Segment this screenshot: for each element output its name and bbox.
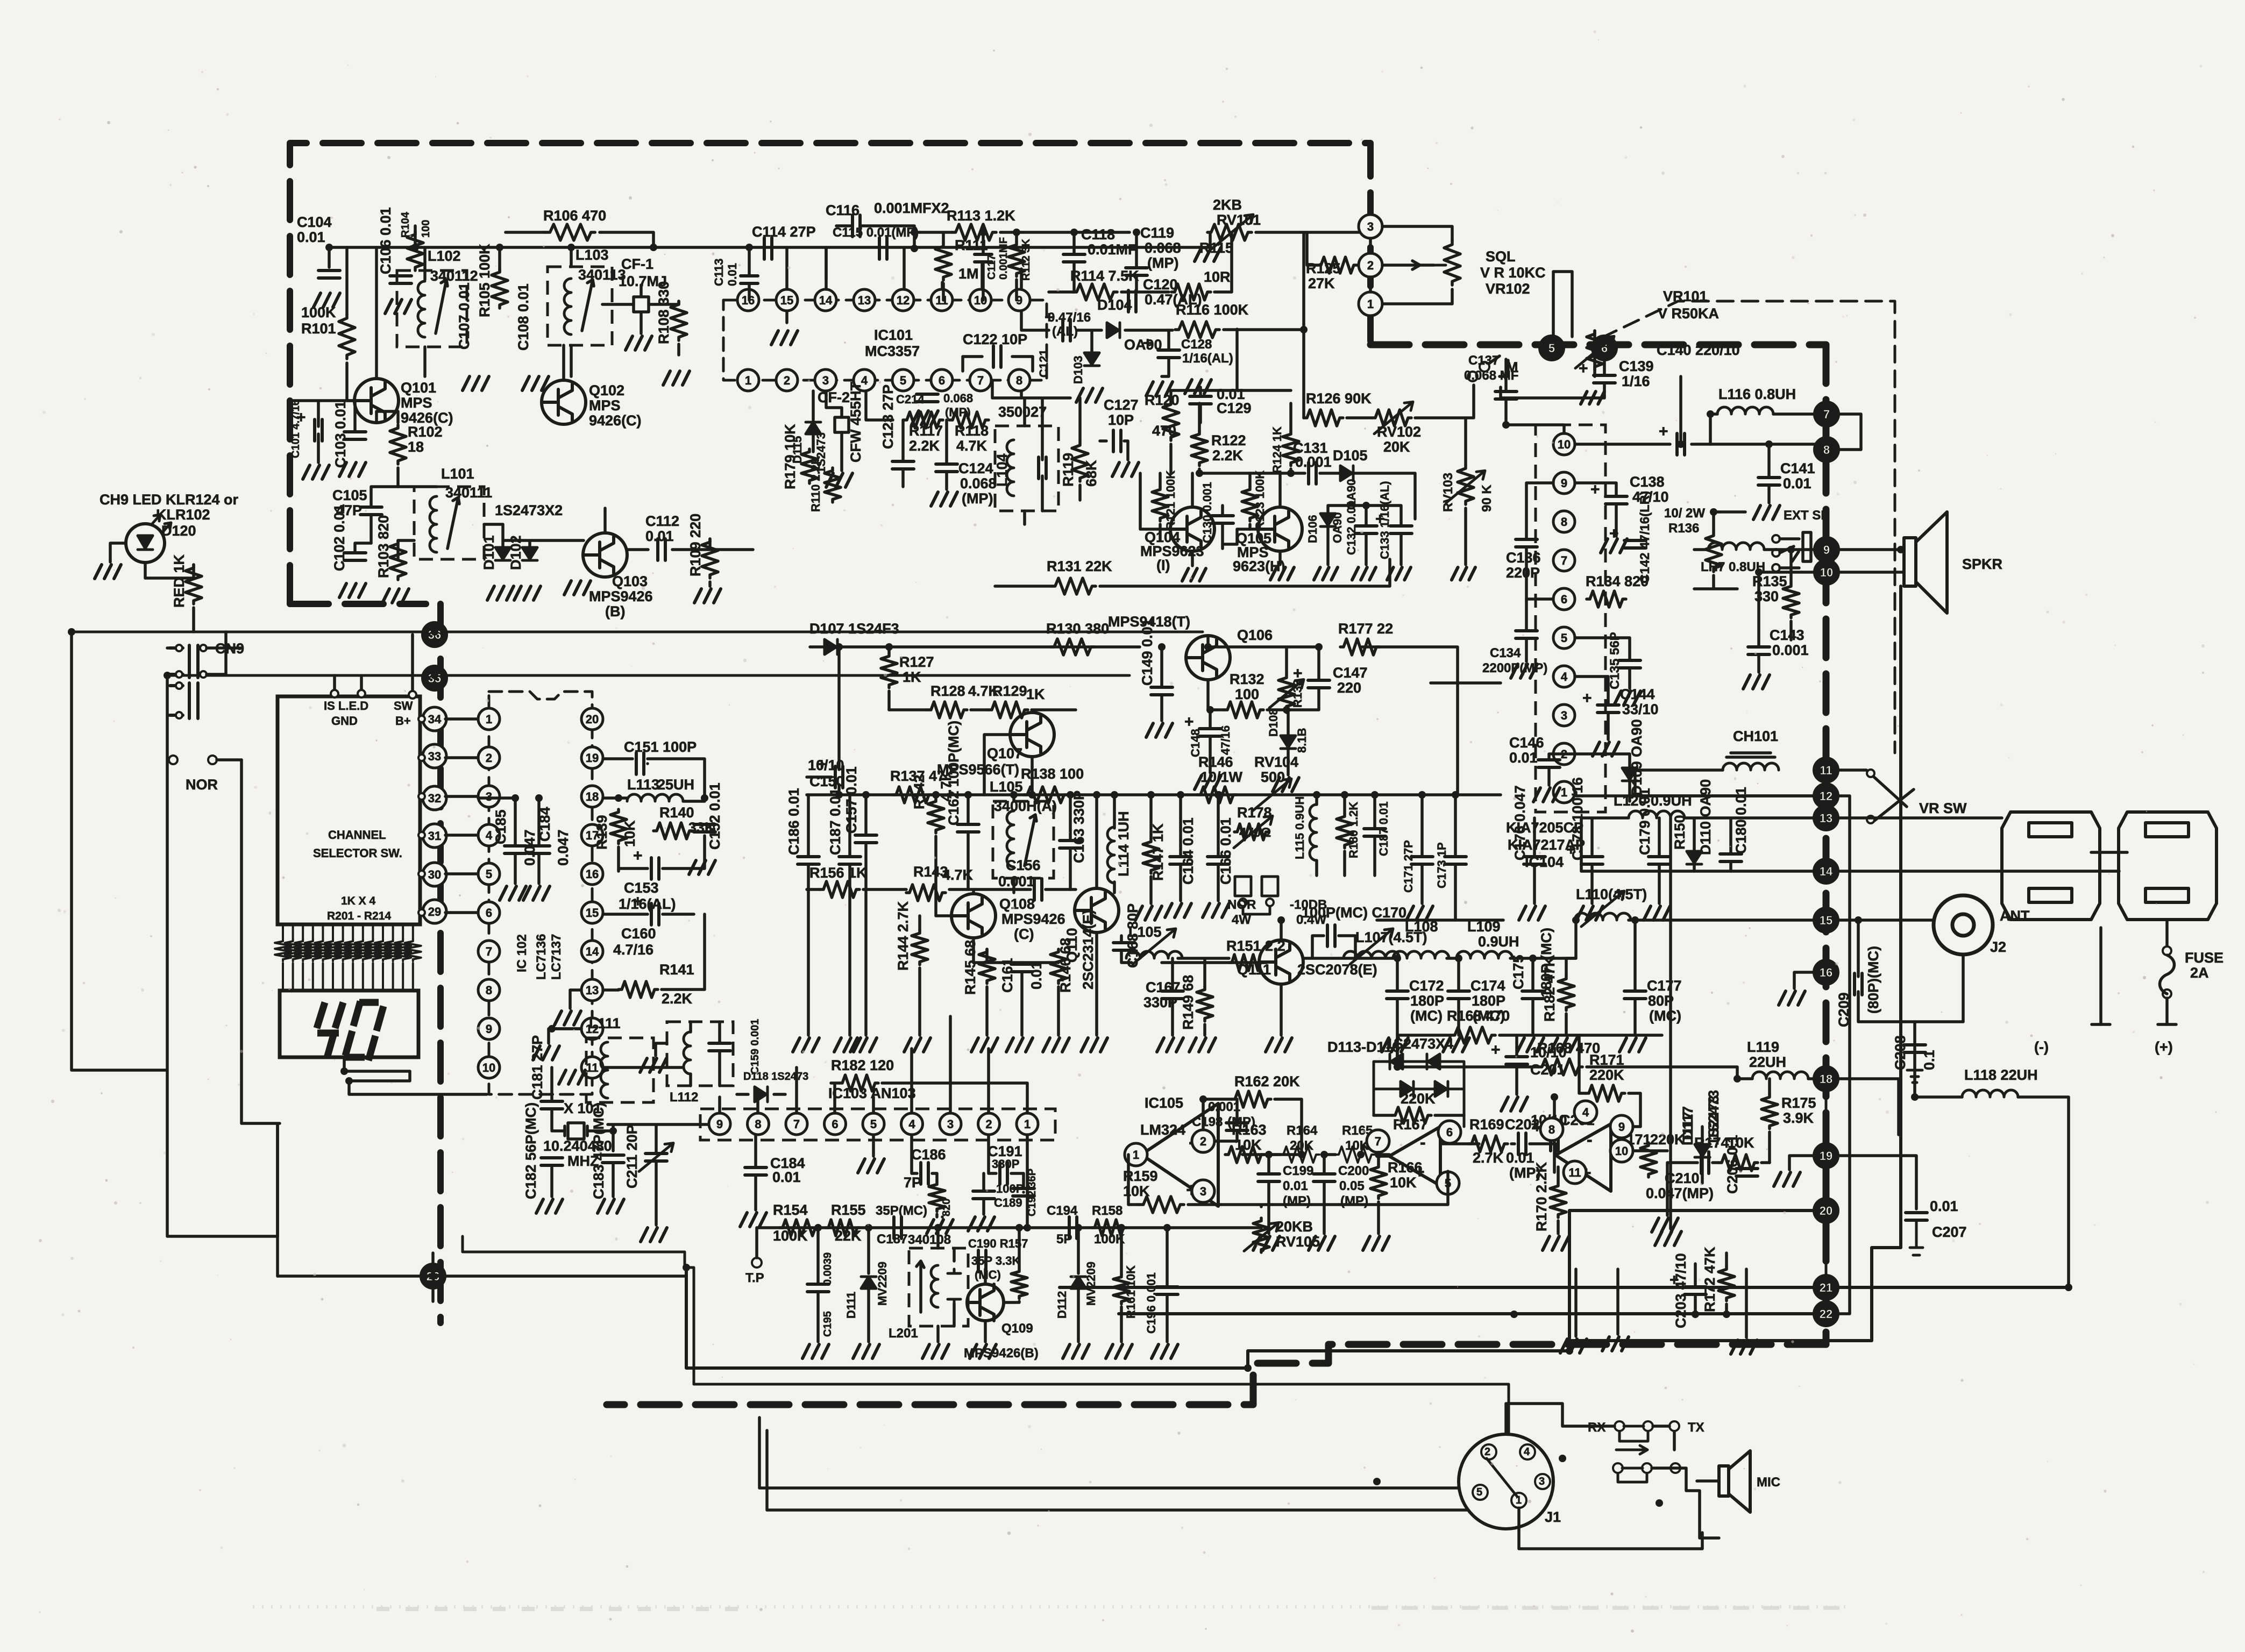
capacitor C176 (1524, 857, 1545, 864)
svg-text:C133 1/16(AL): C133 1/16(AL) (1378, 481, 1391, 559)
svg-text:R114 7.5K: R114 7.5K (1070, 268, 1139, 284)
node 19 (1814, 1144, 1838, 1167)
resistor R135 (1783, 583, 1799, 618)
wire c179 (1658, 818, 1661, 903)
wire r166 (1377, 1155, 1380, 1234)
svg-text:C211 20P: C211 20P (624, 1124, 640, 1188)
svg-text:11: 11 (586, 1061, 598, 1074)
svg-text:0.047(MP): 0.047(MP) (1646, 1185, 1714, 1201)
capacitor C198 (1226, 1123, 1248, 1130)
svg-text:10/10: 10/10 (1530, 1044, 1567, 1060)
svg-text:R178: R178 (1237, 804, 1272, 821)
wire r131 (995, 559, 1390, 586)
svg-text:(C): (C) (1014, 926, 1034, 942)
svg-text:8: 8 (1561, 515, 1567, 529)
capacitor C184 (745, 1167, 766, 1175)
svg-text:R140: R140 (659, 804, 694, 821)
wire c209 (1858, 955, 1963, 1022)
wire node20 staircase (686, 1210, 1814, 1368)
svg-text:2.2K: 2.2K (1212, 447, 1244, 464)
wire spkr right drop (1571, 586, 1901, 1341)
wire r182 (1565, 958, 1568, 1035)
wire c182 (550, 1165, 553, 1197)
svg-text:R122: R122 (1211, 432, 1246, 448)
svg-text:R150: R150 (1672, 815, 1688, 850)
svg-text:10K: 10K (1235, 1137, 1262, 1153)
svg-text:0.01: 0.01 (645, 528, 674, 544)
svg-text:R129: R129 (992, 683, 1027, 699)
capacitor C124 (936, 464, 957, 472)
inductor L120 (1629, 811, 1685, 818)
svg-text:SPKR: SPKR (1962, 556, 2002, 572)
svg-text:RV103: RV103 (1441, 473, 1455, 512)
wire ic102 left ties (445, 719, 478, 913)
capacitor C144 (1597, 705, 1619, 713)
wire r116 (1224, 232, 1304, 418)
svg-text:R171: R171 (1589, 1052, 1624, 1068)
wire Q103 (583, 508, 648, 555)
wire r157 (985, 1228, 1019, 1342)
capacitor C196 (1156, 1287, 1178, 1294)
IC102 pin 8 (478, 979, 500, 1001)
svg-text:4.7K: 4.7K (942, 867, 974, 883)
capacitor C148 (1199, 729, 1221, 736)
wire c151 (603, 759, 705, 798)
svg-text:7: 7 (486, 945, 492, 958)
inductor L101 (340111) (414, 487, 484, 559)
svg-text:C132 0.01: C132 0.01 (1345, 500, 1358, 555)
svg-text:100K: 100K (773, 1228, 808, 1244)
svg-text:20: 20 (586, 713, 599, 726)
capacitor C184 (528, 846, 550, 853)
svg-text:0.001: 0.001 (1772, 642, 1809, 658)
wire pin11 right (603, 1066, 683, 1069)
switch NOR (169, 756, 177, 764)
node 21 (1814, 1276, 1838, 1299)
svg-text:+: + (1579, 360, 1588, 378)
wire c196b (1166, 1228, 1169, 1342)
resistor R132 (1224, 702, 1263, 718)
svg-text:C142 47/16(LR): C142 47/16(LR) (1638, 491, 1652, 583)
capacitor C150 (835, 766, 843, 788)
svg-text:C163 330P: C163 330P (1071, 791, 1087, 863)
svg-text:RV104: RV104 (1254, 754, 1298, 770)
svg-text:29: 29 (428, 905, 441, 918)
node 15 (1814, 908, 1838, 932)
svg-text:0.01: 0.01 (1283, 1179, 1308, 1193)
capacitor C187b (839, 857, 861, 864)
capacitor C151 (636, 753, 644, 774)
svg-text:R139: R139 (594, 815, 610, 850)
svg-text:8: 8 (1823, 443, 1830, 457)
capacitor C177 (1624, 991, 1646, 999)
svg-text:8: 8 (1016, 374, 1022, 387)
svg-text:C128: C128 (1181, 337, 1212, 352)
svg-text:4: 4 (908, 1117, 915, 1131)
resistor R114 (1073, 284, 1117, 300)
svg-text:IC101: IC101 (874, 327, 913, 343)
svg-text:EXT SP: EXT SP (1784, 508, 1829, 523)
wire spkr (1838, 550, 1904, 572)
resistor R153 (929, 1182, 945, 1212)
resistor R116 (1175, 322, 1219, 338)
svg-text:R142: R142 (911, 774, 927, 809)
svg-text:-: - (1420, 1133, 1426, 1152)
capacitor C115 (879, 238, 887, 259)
capacitor C142 (1624, 540, 1646, 548)
op-amp A pins (1125, 1143, 1147, 1166)
wire long bus A (72, 631, 1203, 633)
svg-text:6: 6 (1561, 593, 1567, 606)
wire x3106 (1669, 818, 1672, 1229)
resistor R157 (1011, 1269, 1027, 1299)
wire long bus B (167, 674, 1129, 677)
IC103 pins (709, 1113, 730, 1135)
svg-text:SQL: SQL (1486, 248, 1516, 265)
svg-text:3: 3 (1200, 1185, 1206, 1198)
wire L116 (1710, 414, 1815, 444)
svg-text:13: 13 (1820, 811, 1832, 825)
svg-text:18: 18 (586, 790, 599, 803)
wire pin9 drop (1021, 311, 1049, 330)
svg-text:IS L.E.D: IS L.E.D (324, 699, 368, 713)
IC102 pin 19 (581, 747, 603, 768)
wire d112 (1077, 1228, 1080, 1342)
svg-text:8.1B: 8.1B (1295, 728, 1309, 753)
IC102 pin 1 (478, 708, 500, 730)
svg-text:VR102: VR102 (1486, 281, 1530, 297)
svg-text:5: 5 (1548, 341, 1555, 355)
capacitor C156 (1034, 879, 1042, 900)
svg-text:C139: C139 (1619, 358, 1654, 374)
node 7 (1815, 402, 1838, 426)
inductor L102 (340112) (397, 270, 467, 347)
svg-text:+: + (1293, 665, 1303, 682)
wire q108 em (920, 916, 1058, 1035)
capacitor C180 (1720, 854, 1742, 861)
svg-text:C127: C127 (1104, 397, 1139, 413)
node 35 (423, 666, 446, 690)
svg-text:2.2K: 2.2K (662, 991, 693, 1007)
capacitor C112 (658, 539, 665, 560)
svg-text:C187 0.01: C187 0.01 (827, 788, 843, 855)
wire c211 (608, 1124, 708, 1225)
svg-text:33/10: 33/10 (1622, 701, 1659, 717)
svg-text:C149 0.01: C149 0.01 (1139, 618, 1155, 686)
wire cn9 (167, 632, 241, 715)
diode D105 (1340, 466, 1353, 481)
svg-text:C176 0.047: C176 0.047 (1512, 785, 1528, 860)
svg-text:L102: L102 (428, 248, 461, 264)
IC102 pin 13 (581, 979, 603, 1001)
svg-text:10: 10 (974, 294, 987, 307)
svg-text:C112: C112 (645, 513, 679, 529)
svg-text:16: 16 (1820, 966, 1832, 979)
svg-text:0.068: 0.068 (943, 391, 973, 405)
connector plug B (2119, 812, 2216, 920)
svg-text:7: 7 (1561, 554, 1567, 567)
inductor L118 (1962, 1090, 2018, 1097)
svg-text:C166 0.01: C166 0.01 (1218, 817, 1234, 885)
transistor Q109 (967, 1284, 1004, 1321)
svg-text:MPS9623: MPS9623 (1140, 543, 1204, 559)
svg-text:3: 3 (947, 1117, 954, 1131)
wire plugs (2091, 852, 2167, 1024)
capacitor C113 (741, 276, 758, 283)
wire l110 (1566, 920, 1814, 958)
resistor bank R201-R214 (275, 939, 291, 961)
svg-text:+: + (1143, 334, 1153, 352)
svg-text:C181 27P: C181 27P (529, 1035, 545, 1100)
diode D115 (806, 422, 821, 434)
wire disp (344, 1057, 410, 1081)
capacitor C197 (1364, 829, 1386, 836)
node 18 (1814, 1067, 1838, 1091)
wire l113 (603, 798, 705, 801)
capacitor C210 (1701, 1152, 1709, 1173)
svg-text:R146: R146 (1198, 754, 1233, 770)
svg-text:C179 0.01: C179 0.01 (1637, 788, 1653, 855)
resistor RED 1K (186, 565, 202, 604)
svg-text:C135 56P: C135 56P (1608, 632, 1622, 689)
diode D112 (1071, 1277, 1086, 1288)
svg-text:R145 68: R145 68 (962, 940, 978, 995)
svg-text:220K: 220K (1589, 1067, 1624, 1083)
wire c207 (1910, 1220, 1923, 1255)
wire r127 (887, 647, 891, 710)
svg-text:47/16: 47/16 (1219, 725, 1232, 755)
capacitor C186 (921, 1163, 928, 1184)
svg-text:C167: C167 (1146, 979, 1181, 995)
svg-text:13: 13 (586, 984, 599, 997)
svg-text:R163: R163 (1232, 1122, 1267, 1138)
node 31 (423, 824, 446, 848)
wire c176 (1533, 818, 1536, 903)
resistor R146b (1050, 949, 1067, 984)
svg-text:2: 2 (985, 1117, 992, 1131)
svg-text:1K: 1K (1026, 686, 1045, 702)
wire c141 (1767, 444, 1771, 503)
op-amp C pins (1540, 1118, 1563, 1141)
svg-text:C202: C202 (1505, 1116, 1540, 1133)
svg-text:C159 0.001: C159 0.001 (749, 1019, 761, 1074)
resistor R123 (1242, 487, 1258, 521)
svg-text:V R 10KC: V R 10KC (1480, 265, 1546, 281)
svg-text:(AL): (AL) (1052, 324, 1078, 339)
svg-text:5: 5 (486, 867, 492, 881)
svg-text:14: 14 (586, 945, 599, 958)
svg-text:R164: R164 (1287, 1123, 1318, 1138)
svg-text:0.01: 0.01 (772, 1169, 801, 1185)
wire l201 (938, 1228, 954, 1342)
resistor R155 (826, 1220, 860, 1236)
svg-text:0.001: 0.001 (998, 873, 1035, 889)
capacitor C190 (978, 1250, 986, 1272)
wire q104 base (1140, 473, 1258, 544)
svg-text:2SC2078(E): 2SC2078(E) (1297, 962, 1377, 978)
svg-text:4.7/16: 4.7/16 (613, 942, 653, 958)
wire c195 (816, 1228, 820, 1342)
svg-text:4.7K: 4.7K (956, 438, 987, 454)
svg-text:Q108: Q108 (999, 896, 1035, 912)
svg-text:D105: D105 (1333, 447, 1368, 464)
svg-text:8: 8 (486, 984, 492, 997)
pot RV105 (1253, 1218, 1269, 1252)
wire bus1711 (1377, 918, 1503, 922)
svg-text:5P: 5P (1056, 1232, 1072, 1247)
node 34 (423, 707, 446, 731)
svg-text:C157 0.01: C157 0.01 (843, 766, 859, 834)
channel selector box (278, 696, 420, 924)
svg-text:Q106: Q106 (1237, 627, 1273, 643)
svg-text:C195: C195 (822, 1311, 834, 1337)
svg-text:0.001: 0.001 (1295, 454, 1332, 470)
svg-text:LC7137: LC7137 (549, 934, 564, 980)
capacitor C179 (1649, 857, 1670, 864)
IC104 dashed outline (1536, 425, 1605, 812)
svg-text:330P: 330P (992, 1157, 1019, 1171)
resistor R127 (881, 653, 897, 688)
trim coil L107 (1344, 951, 1399, 958)
svg-text:(MC): (MC) (975, 1268, 1001, 1281)
capacitor C181 (541, 1101, 563, 1109)
svg-text:Q109: Q109 (1001, 1321, 1033, 1336)
svg-text:+: + (1659, 423, 1668, 440)
wire modbus (757, 1226, 1261, 1229)
resistor R134 (1587, 591, 1626, 607)
svg-text:9426(C): 9426(C) (589, 412, 642, 429)
svg-text:7: 7 (1823, 408, 1830, 421)
svg-text:TX: TX (1688, 1420, 1704, 1435)
svg-text:R110 2.2K: R110 2.2K (809, 456, 822, 512)
svg-text:C198: C198 (1192, 1115, 1223, 1129)
svg-text:1: 1 (1133, 1148, 1139, 1162)
wire row1654 (807, 888, 1076, 891)
svg-text:7: 7 (977, 374, 984, 387)
resistor R136 (1706, 532, 1722, 572)
IC101 dashed outline (723, 300, 1047, 380)
svg-text:R182 47K: R182 47K (1541, 956, 1558, 1022)
svg-text:220K: 220K (1401, 1091, 1436, 1107)
wire C118 (1072, 232, 1076, 292)
svg-text:0.068: 0.068 (960, 475, 997, 492)
capacitor C209 (1855, 973, 1862, 995)
svg-text:2KB: 2KB (1213, 197, 1242, 213)
svg-text:R136: R136 (1668, 521, 1699, 536)
svg-text:20: 20 (1820, 1204, 1832, 1217)
inductor L109 (1457, 951, 1512, 958)
resistor R159 (1140, 1197, 1184, 1213)
svg-text:5: 5 (900, 374, 906, 387)
svg-text:9: 9 (486, 1022, 492, 1036)
capacitor C128 (1158, 350, 1180, 358)
svg-text:0.068 MF: 0.068 MF (1464, 368, 1518, 383)
wire batt (2092, 1023, 2176, 1026)
diode D109 (1622, 768, 1637, 781)
transistor Q105 (1258, 507, 1302, 551)
IC102 pin 5 (478, 863, 500, 885)
svg-text:35P 3.3K: 35P 3.3K (971, 1254, 1020, 1268)
capacitor C149 (1151, 687, 1173, 695)
capacitor C208 (1904, 1045, 1926, 1052)
node 14 (1814, 859, 1838, 883)
resistor R118 (949, 412, 989, 428)
wire n10 (1759, 571, 1815, 574)
svg-text:C206 0.1: C206 0.1 (1724, 1135, 1740, 1194)
wire det row (889, 710, 1076, 713)
svg-text:0.01: 0.01 (297, 229, 325, 245)
capacitor C201 (1551, 1129, 1558, 1151)
svg-text:180P: 180P (1472, 993, 1505, 1009)
capacitor C104 (318, 270, 340, 278)
7seg digit 4 (317, 1002, 343, 1058)
switch TX lower (1671, 1463, 1680, 1473)
svg-text:C144: C144 (1620, 686, 1655, 702)
svg-text:D103: D103 (1071, 355, 1085, 384)
svg-text:16: 16 (586, 867, 599, 881)
capacitor C118 (1063, 254, 1085, 262)
wire top row2 (914, 232, 1129, 300)
inductor L108 (1393, 951, 1449, 958)
svg-text:RV102: RV102 (1377, 424, 1421, 440)
node 33 (423, 744, 446, 768)
wire pin10 row (1575, 376, 1827, 444)
svg-text:0.001MF: 0.001MF (998, 237, 1010, 280)
wire n13 right (1838, 818, 2119, 871)
svg-text:0.047: 0.047 (555, 829, 571, 866)
svg-text:R158: R158 (1092, 1204, 1122, 1218)
svg-text:C201: C201 (1530, 1062, 1565, 1078)
capacitor C191 (1000, 1163, 1007, 1184)
svg-text:12: 12 (897, 294, 910, 307)
diode D102 (522, 547, 537, 560)
wire C113 (748, 247, 751, 300)
node 29 (423, 900, 446, 923)
resistor R101 (339, 315, 355, 359)
svg-text:15: 15 (1820, 914, 1832, 927)
svg-text:CH101: CH101 (1733, 728, 1778, 744)
IC102 pin 15 (581, 902, 603, 923)
wire r168 (1397, 1038, 1737, 1079)
svg-text:C186 0.01: C186 0.01 (786, 788, 802, 855)
wire ch101 (1635, 770, 1814, 796)
svg-text:500: 500 (1261, 769, 1285, 785)
svg-text:0.01: 0.01 (1028, 961, 1045, 989)
wire fuse (2165, 998, 2169, 1024)
wire c138 (1575, 483, 1616, 536)
svg-text:C148: C148 (1189, 729, 1202, 757)
svg-text:MIC: MIC (1757, 1475, 1780, 1490)
svg-text:R144 2.7K: R144 2.7K (895, 901, 911, 971)
svg-text:OA90: OA90 (1331, 512, 1344, 543)
wire c150 (807, 647, 839, 795)
svg-text:C105: C105 (332, 487, 367, 503)
svg-text:+: + (1491, 1041, 1501, 1059)
svg-text:R141: R141 (659, 962, 694, 978)
wire lm bottom (1695, 1253, 1727, 1314)
svg-text:R161 10K: R161 10K (1124, 1265, 1138, 1319)
wire q107 (984, 735, 1032, 795)
svg-text:C194: C194 (1047, 1204, 1078, 1218)
wire R101 (347, 247, 354, 401)
svg-text:R108 330: R108 330 (656, 281, 672, 344)
wire C119 (1135, 232, 1138, 292)
capacitor C194 (1069, 1217, 1077, 1238)
svg-text:2: 2 (486, 751, 492, 765)
wire bridge (1374, 1114, 1464, 1117)
wire C101 (317, 401, 320, 462)
wire q106 join (1431, 681, 1501, 685)
